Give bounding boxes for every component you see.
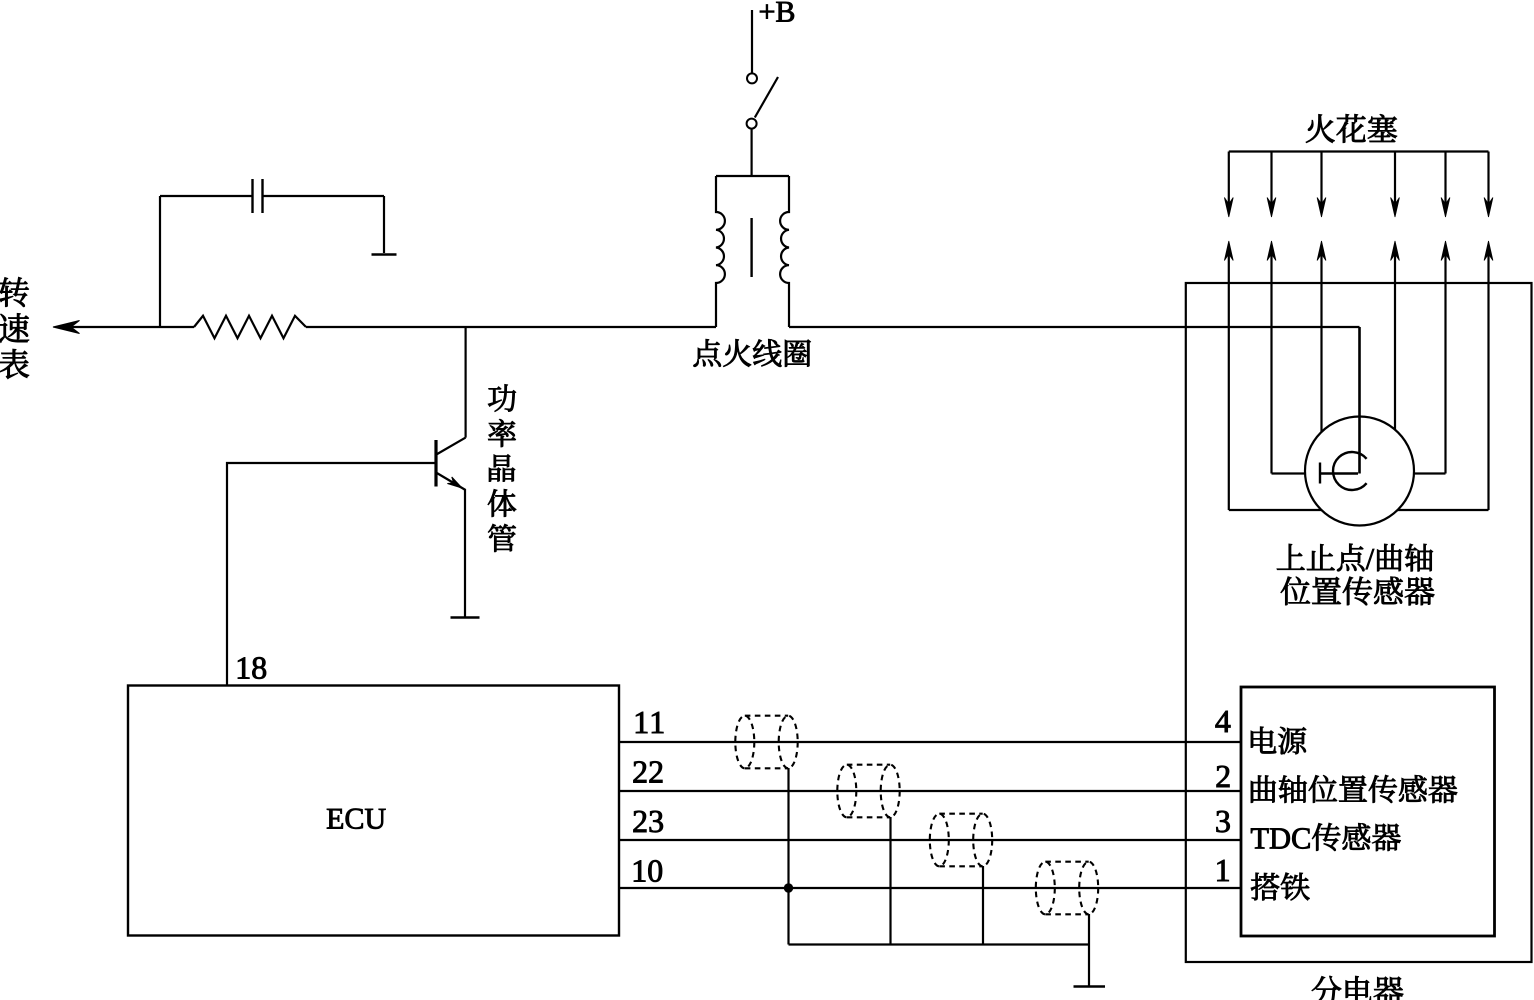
wire shield2 drain: [889, 817, 891, 945]
label 火花塞 (spark plugs): [1306, 114, 1397, 142]
shield symbol on wire 10-1: [1036, 862, 1055, 915]
spark plug gap arrows (down): [1228, 152, 1230, 211]
wire capacitor top left: [160, 195, 252, 197]
ground (capacitor): [372, 253, 397, 256]
wire base to ECU pin 18: [227, 463, 436, 685]
label 点火线圈 (ignition coil): [694, 339, 811, 367]
capacitor C1: [251, 179, 253, 213]
pin label 11: [636, 712, 663, 733]
junction dot shield1 drain on wire 10: [784, 883, 793, 892]
distributor box: [1186, 283, 1532, 962]
label 功率晶体管 (power transistor): [488, 384, 516, 551]
net +B: [760, 2, 794, 22]
shield symbol on wire 11-4: [735, 716, 754, 769]
resistor R1: [194, 316, 306, 338]
wire collector from main wire: [465, 327, 467, 438]
rotor contact C: [1333, 452, 1367, 490]
spark plug feed line: [1229, 150, 1489, 152]
ECU box U1: [128, 686, 619, 936]
wire switch to ignition coil: [750, 128, 752, 176]
wire tachometer to resistor: [70, 326, 194, 328]
label 曲轴位置传感器 (crank position sensor): [1251, 775, 1457, 803]
wire emitter to ground: [464, 489, 466, 617]
pin label 18: [238, 657, 266, 679]
wire shield3 drain: [982, 866, 984, 945]
pin label 3: [1216, 811, 1229, 833]
label TDC传感器 (TDC sensor): [1251, 823, 1401, 851]
label 位置传感器 (position sensor): [1281, 577, 1434, 606]
pin label 2: [1217, 766, 1230, 787]
wire high voltage into rotor: [1358, 327, 1361, 474]
sensor connector box: [1241, 687, 1495, 936]
wire ECU pin 10 to pin 1: [619, 887, 1241, 889]
pin label 23: [634, 811, 663, 833]
wire ECU pin 23 to pin 3: [619, 839, 1241, 841]
pin label 22: [634, 761, 663, 782]
wire capacitor branch left vertical: [159, 196, 161, 327]
label 电源 (power): [1251, 727, 1306, 755]
wire capacitor to ground: [383, 196, 385, 253]
arrow to tachometer: [53, 321, 80, 334]
distributor cap contact chord: [1229, 509, 1489, 511]
ground (emitter): [451, 616, 480, 619]
distributor cap contact left: [1272, 472, 1311, 474]
wire coil to distributor: [789, 326, 1360, 328]
wire +B to switch: [751, 10, 753, 73]
wire capacitor top right: [263, 195, 385, 197]
pin label 10: [634, 860, 662, 882]
label 搭铁 (ground): [1251, 873, 1310, 901]
wire shield1 drain: [787, 768, 789, 945]
wire shield4 drain: [1088, 914, 1090, 986]
label 上止点/曲轴 (TDC/crankshaft): [1277, 544, 1433, 572]
label 分电器 (distributor): [1312, 976, 1403, 1000]
shield symbol on wire 22-2: [837, 765, 856, 818]
ignition coil T1: [716, 175, 789, 177]
label tachometer 转速表 (net to tachometer): [0, 277, 29, 379]
ignition switch S1: [747, 73, 757, 83]
wire ECU pin 11 to pin 4: [619, 741, 1241, 743]
distributor rotor circle: [1305, 417, 1414, 526]
pin label 1: [1217, 860, 1228, 881]
transistor Q1 power transistor: [436, 438, 466, 455]
rotor fixed electrode: [1319, 463, 1321, 484]
wire shield drain bus: [789, 943, 1090, 945]
spark plug wires (up arrows into distributor): [1224, 241, 1233, 261]
shield symbol on wire 23-3: [930, 814, 949, 867]
distributor cap contact right: [1410, 472, 1446, 474]
label ECU: [327, 809, 386, 829]
wire ECU pin 22 to pin 2: [619, 790, 1241, 792]
wire resistor to coil: [306, 326, 716, 328]
ground (shield drain): [1074, 985, 1106, 988]
pin label 4: [1216, 711, 1231, 732]
